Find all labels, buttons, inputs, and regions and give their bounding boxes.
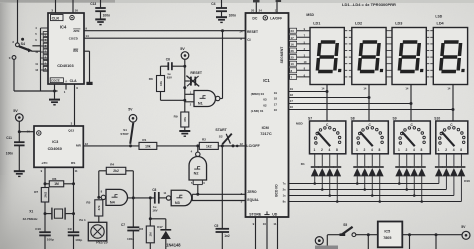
display common pin <box>368 85 370 122</box>
pin number box <box>290 74 297 79</box>
svg-text:1M: 1M <box>54 182 59 186</box>
pin tick <box>386 30 389 32</box>
svg-text:23: 23 <box>291 29 295 33</box>
crystal X1 <box>44 212 47 215</box>
svg-text:C4: C4 <box>211 2 215 6</box>
svg-text:8: 8 <box>336 148 338 152</box>
switch output stub <box>314 154 316 166</box>
svg-text:STORE: STORE <box>249 213 262 217</box>
node <box>183 65 186 68</box>
wire segment <box>289 76 311 78</box>
switch S4 <box>16 43 20 47</box>
svg-text:2: 2 <box>321 148 323 152</box>
svg-text:100n: 100n <box>6 151 13 155</box>
pin tick <box>430 76 433 78</box>
wire <box>364 176 366 189</box>
svg-text:2M2: 2M2 <box>43 192 47 198</box>
svg-text:14: 14 <box>321 86 324 90</box>
pin tick <box>389 36 392 38</box>
wire <box>41 57 49 59</box>
svg-text:19: 19 <box>290 87 294 91</box>
switch output stub <box>406 154 408 166</box>
svg-text:CO/ZD: CO/ZD <box>69 36 78 40</box>
wire segment <box>289 56 311 58</box>
wire digit select <box>289 103 412 105</box>
pin 24 wire <box>276 0 278 13</box>
wire <box>409 235 411 249</box>
svg-text:1N4148: 1N4148 <box>166 243 181 248</box>
resistor R2 <box>199 142 218 149</box>
svg-text:4: 4 <box>413 148 415 152</box>
pin tick <box>389 63 392 65</box>
svg-text:1k2: 1k2 <box>206 144 212 148</box>
svg-text:LD1: LD1 <box>313 21 320 25</box>
svg-text:18: 18 <box>290 93 294 97</box>
svg-text:16V: 16V <box>152 208 157 212</box>
diode D15 <box>450 166 458 168</box>
svg-text:10k: 10k <box>145 144 151 148</box>
svg-text:17: 17 <box>291 36 295 40</box>
pin tick <box>389 69 392 71</box>
jam value box <box>43 49 48 54</box>
IC U-IC3 CD4060 <box>34 126 83 167</box>
wire <box>41 63 49 65</box>
svg-text:Q13: Q13 <box>68 129 74 133</box>
svg-text:R6: R6 <box>52 177 56 181</box>
pin 3 wire <box>55 0 57 13</box>
wire <box>41 39 49 41</box>
svg-text:19: 19 <box>274 91 278 95</box>
wire <box>41 33 49 35</box>
wire N2 inputs <box>192 180 194 185</box>
pin tick <box>426 43 429 45</box>
wire count line <box>83 145 139 147</box>
pin tick <box>349 69 352 71</box>
pin 16 wire <box>72 0 74 13</box>
pin tick <box>349 56 352 58</box>
capacitor C7 <box>132 198 134 227</box>
svg-text:11: 11 <box>75 169 78 173</box>
pin tick <box>426 56 429 58</box>
wire BCD bus <box>289 201 462 203</box>
switch output stub <box>371 154 373 166</box>
svg-text:26: 26 <box>291 49 295 53</box>
switch output stub <box>379 154 381 166</box>
wire <box>336 176 338 201</box>
svg-text:2: 2 <box>406 148 408 152</box>
svg-text:1: 1 <box>314 148 316 152</box>
svg-text:⊥: ⊥ <box>65 79 68 83</box>
resistor R9 <box>181 112 189 127</box>
gate N3 <box>171 190 192 206</box>
pin tick <box>349 63 352 65</box>
svg-text:10k: 10k <box>159 81 163 86</box>
node <box>53 90 56 93</box>
svg-text:18: 18 <box>274 97 278 101</box>
svg-text:LD4: LD4 <box>437 21 445 25</box>
svg-text:S2: S2 <box>219 135 223 139</box>
svg-text:02: 02 <box>263 103 267 107</box>
pin tick <box>426 63 429 65</box>
svg-text:S10: S10 <box>434 116 440 120</box>
pin tick <box>389 56 392 58</box>
gate N2 <box>197 146 199 152</box>
svg-text:4: 4 <box>453 148 455 152</box>
node <box>183 86 186 89</box>
diode D2 <box>318 166 326 168</box>
wire <box>435 235 437 249</box>
wire segment <box>289 36 311 38</box>
svg-text:2: 2 <box>445 148 447 152</box>
diode D10 <box>403 166 411 168</box>
jam value box <box>43 32 48 37</box>
pin tick <box>430 63 433 65</box>
diode D5 <box>353 166 361 168</box>
ground <box>216 16 227 18</box>
svg-text:1: 1 <box>356 148 358 152</box>
svg-text:2k2: 2k2 <box>113 169 119 173</box>
svg-text:D17: D17 <box>157 225 163 229</box>
wire BCD bus <box>289 195 454 197</box>
resistor R5 <box>95 200 103 216</box>
power pin circle <box>263 16 267 20</box>
svg-text:2x: 2x <box>283 188 286 192</box>
svg-text:BCD I/O: BCD I/O <box>275 184 279 197</box>
svg-text:25: 25 <box>291 56 295 60</box>
diode D8 <box>376 166 384 168</box>
wire <box>40 75 42 91</box>
svg-text:S1: S1 <box>123 128 127 132</box>
pin tick <box>386 63 389 65</box>
svg-text:7217C: 7217C <box>260 131 272 136</box>
svg-text:LD2: LD2 <box>355 21 362 25</box>
svg-text:EN: EN <box>73 49 78 53</box>
svg-text:P92720: P92720 <box>96 241 108 245</box>
wire N4 output <box>128 197 155 199</box>
svg-text:S8: S8 <box>351 116 355 120</box>
wire <box>184 59 186 75</box>
wire <box>159 197 167 199</box>
node <box>196 193 199 196</box>
svg-text:100n: 100n <box>229 13 237 17</box>
svg-text:RESET: RESET <box>247 30 258 34</box>
wire segment <box>289 69 311 71</box>
svg-text:20: 20 <box>251 9 255 13</box>
ground <box>14 170 25 172</box>
svg-text:2: 2 <box>364 148 366 152</box>
svg-text:S9: S9 <box>393 116 397 120</box>
svg-text:14: 14 <box>363 86 366 90</box>
svg-text:10: 10 <box>35 50 38 54</box>
svg-text:IC3: IC3 <box>52 139 59 144</box>
diode D1 <box>311 166 319 168</box>
svg-text:11: 11 <box>273 222 276 226</box>
svg-text:4: 4 <box>371 148 373 152</box>
pin tick <box>426 30 429 32</box>
svg-text:LD3: LD3 <box>395 21 402 25</box>
diode D9 <box>395 166 403 168</box>
pin tick <box>344 56 347 58</box>
svg-text:R3: R3 <box>139 227 143 231</box>
node <box>367 233 370 236</box>
svg-text:8x: 8x <box>283 200 286 204</box>
svg-text:RS: RS <box>71 161 75 165</box>
svg-text:47k: 47k <box>183 117 187 122</box>
svg-text:S4: S4 <box>21 42 25 46</box>
svg-text:X1: X1 <box>29 209 33 213</box>
svg-text:R4: R4 <box>110 163 114 167</box>
svg-text:1: 1 <box>438 148 440 152</box>
switch output stub <box>421 154 423 166</box>
wire 5V to pin16 <box>19 131 34 133</box>
diode D16 <box>457 166 465 168</box>
svg-text:5V: 5V <box>180 47 185 51</box>
svg-text:SEGMENT: SEGMENT <box>280 46 284 64</box>
pin tick <box>386 36 389 38</box>
svg-text:17: 17 <box>274 102 278 106</box>
svg-text:8: 8 <box>379 148 381 152</box>
svg-text:IC5: IC5 <box>384 229 390 233</box>
wire <box>421 176 423 201</box>
pin tick <box>349 43 352 45</box>
pin tick <box>349 36 352 38</box>
svg-text:ICM: ICM <box>262 125 269 130</box>
switch output stub <box>445 154 447 166</box>
switch output stub <box>356 154 358 166</box>
wire <box>184 75 186 112</box>
svg-text:LA/OFF: LA/OFF <box>270 17 282 21</box>
svg-text:16: 16 <box>291 42 295 46</box>
wire <box>327 234 339 236</box>
svg-text:8: 8 <box>460 148 462 152</box>
power pin circle <box>70 15 74 19</box>
label gnd <box>266 211 268 214</box>
svg-text:7805: 7805 <box>383 236 391 240</box>
svg-text:D16: D16 <box>464 179 470 183</box>
wire segment <box>289 30 311 32</box>
pin tick <box>349 76 352 78</box>
pointer <box>317 132 330 146</box>
wire <box>398 176 400 183</box>
svg-text:MSD: MSD <box>306 13 314 17</box>
wire <box>157 145 200 147</box>
battery terminal <box>315 246 338 249</box>
pin tick <box>426 76 429 78</box>
svg-text:5V: 5V <box>13 109 18 113</box>
svg-text:IC4: IC4 <box>60 25 67 30</box>
svg-text:5V: 5V <box>461 225 466 229</box>
svg-text:ZERO: ZERO <box>247 190 257 194</box>
resistor R7 <box>41 188 48 203</box>
switch S5 <box>340 233 346 236</box>
svg-text:S5: S5 <box>343 223 347 227</box>
wire <box>406 176 408 189</box>
svg-text:C5: C5 <box>214 224 218 228</box>
display common pin <box>452 85 454 122</box>
wire <box>314 176 316 183</box>
svg-text:R8: R8 <box>149 77 153 81</box>
svg-text:14: 14 <box>447 86 450 90</box>
resistor R1 <box>139 142 157 149</box>
svg-text:EQUAL: EQUAL <box>247 198 259 202</box>
svg-text:D1: D1 <box>301 162 305 166</box>
wire <box>14 90 58 92</box>
pin tick <box>430 43 433 45</box>
wire <box>402 234 462 236</box>
power entry circle <box>315 237 323 245</box>
svg-text:CLA: CLA <box>70 79 78 83</box>
gate N4 <box>97 196 100 199</box>
svg-text:CD4060: CD4060 <box>48 146 62 151</box>
jam value box <box>43 66 48 71</box>
pin tick <box>426 69 429 71</box>
jam value box <box>43 61 48 66</box>
wire digit select <box>289 109 454 111</box>
pin number box <box>290 68 297 73</box>
wire <box>31 50 40 52</box>
svg-text:LSD: LSD <box>435 14 442 18</box>
svg-text:MR: MR <box>76 143 82 147</box>
svg-text:RESET: RESET <box>190 71 203 75</box>
wire jam bus <box>40 28 42 75</box>
svg-text:63V: 63V <box>167 75 172 79</box>
switch output stub <box>453 154 455 166</box>
svg-text:Bz 1: Bz 1 <box>79 218 86 222</box>
svg-text:10: 10 <box>291 62 295 66</box>
IC U-IC4 CD40103 <box>48 13 84 84</box>
pin tick <box>426 50 429 52</box>
wire <box>218 145 245 147</box>
diode D14 <box>442 166 450 168</box>
pin tick <box>430 36 433 38</box>
svg-text:7x: 7x <box>283 182 286 186</box>
pin tick <box>389 50 392 52</box>
wire BCD bus <box>289 183 439 185</box>
svg-text:(LSD) 01: (LSD) 01 <box>251 109 264 113</box>
svg-text:5V: 5V <box>128 107 133 111</box>
svg-text:LC/OFF: LC/OFF <box>246 144 260 148</box>
wire <box>379 176 381 201</box>
pin tick <box>430 50 433 52</box>
svg-text:R5: R5 <box>86 201 90 205</box>
gate N1 <box>194 91 216 107</box>
switch output stub <box>336 154 338 166</box>
pin number box <box>290 41 297 46</box>
svg-text:32.768kHz: 32.768kHz <box>23 217 38 221</box>
display common pin <box>410 85 412 122</box>
pin tick <box>430 69 433 71</box>
pin tick <box>389 30 392 32</box>
pin 1 stub <box>65 84 67 90</box>
svg-text:1: 1 <box>398 148 400 152</box>
svg-text:14: 14 <box>239 30 243 34</box>
switch output stub <box>398 154 400 166</box>
switch output stub <box>460 154 462 166</box>
pin tick <box>386 69 389 71</box>
wire <box>18 145 20 170</box>
svg-text:1x: 1x <box>283 194 286 198</box>
pin tick <box>344 50 347 52</box>
wire <box>356 176 358 183</box>
switch output stub <box>321 154 323 166</box>
wire N1 inputs <box>185 93 194 95</box>
pin tick <box>386 56 389 58</box>
pin tick <box>344 76 347 78</box>
svg-text:16: 16 <box>274 108 278 112</box>
pin tick <box>344 43 347 45</box>
svg-text:4: 4 <box>329 148 331 152</box>
wire to C5 <box>221 146 223 229</box>
jam value box <box>43 55 48 60</box>
wire <box>371 176 373 195</box>
svg-text:11: 11 <box>35 62 38 66</box>
wire <box>321 176 323 189</box>
wire carry line <box>84 37 246 39</box>
EN pin wire <box>84 50 90 52</box>
svg-text:100p: 100p <box>75 238 82 242</box>
pin tick <box>349 30 352 32</box>
svg-text:24: 24 <box>259 9 263 13</box>
wire <box>73 167 75 232</box>
svg-text:16: 16 <box>290 105 294 109</box>
pin number box <box>290 61 297 66</box>
svg-text:C7: C7 <box>121 223 125 227</box>
svg-text:N1: N1 <box>198 102 203 106</box>
wire <box>126 170 134 172</box>
ground <box>95 18 106 20</box>
pin tick <box>344 63 347 65</box>
pin number box <box>290 55 297 60</box>
pin tick <box>344 69 347 71</box>
svg-text:IC1: IC1 <box>263 78 270 83</box>
pin tick <box>389 76 392 78</box>
power pin circle <box>37 131 41 135</box>
svg-text:START: START <box>215 128 227 132</box>
diode D11 <box>410 166 418 168</box>
svg-text:03: 03 <box>263 98 267 102</box>
wire <box>17 0 19 43</box>
wire reset line <box>84 30 246 32</box>
diode D12 <box>418 166 426 168</box>
svg-text:UD: UD <box>272 213 278 217</box>
svg-text:16: 16 <box>75 9 79 13</box>
wire to EQUAL <box>192 200 246 202</box>
pin tick <box>344 36 347 38</box>
resistor R6 <box>44 182 47 185</box>
IC U-IC1 ICM7217C <box>246 13 289 217</box>
switch output stub <box>413 154 415 166</box>
wire <box>329 176 331 195</box>
svg-text:14: 14 <box>85 34 89 38</box>
svg-text:10: 10 <box>263 222 267 226</box>
svg-text:MSD: MSD <box>296 121 304 125</box>
wire segment <box>289 43 311 45</box>
wire to ZERO <box>191 194 193 200</box>
pin tick <box>426 36 429 38</box>
wire <box>413 176 415 195</box>
svg-text:17: 17 <box>290 99 294 103</box>
svg-text:47k: 47k <box>97 205 101 210</box>
resistor R8 <box>160 66 162 75</box>
pin tick <box>349 50 352 52</box>
display common pin <box>326 85 328 122</box>
wire <box>367 235 369 249</box>
svg-text:C11: C11 <box>6 136 12 140</box>
wire segment <box>289 63 311 65</box>
wire <box>41 45 49 47</box>
svg-text:C9: C9 <box>68 227 72 231</box>
pin number box <box>290 48 297 53</box>
